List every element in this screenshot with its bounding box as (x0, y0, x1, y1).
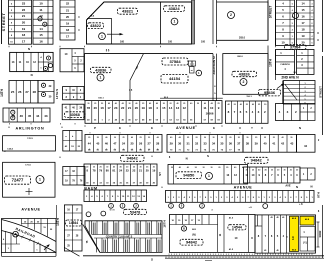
svg-text:30: 30 (290, 137, 292, 139)
svg-text:40: 40 (179, 166, 181, 169)
svg-text:100: 100 (168, 41, 173, 44)
svg-text:5: 5 (312, 43, 313, 45)
svg-text:160.1: 160.1 (98, 97, 104, 99)
block cells with lot 10 (60, 49, 84, 72)
svg-text:STREET: STREET (318, 86, 322, 98)
svg-text:2ND AVE N: 2ND AVE N (281, 75, 299, 79)
svg-text:8: 8 (74, 123, 75, 125)
svg-text:8: 8 (9, 123, 10, 125)
arrow to east (107, 33, 121, 35)
svg-text:30: 30 (212, 137, 214, 139)
svg-text:CHURCH: CHURCH (280, 64, 290, 66)
svg-text:1: 1 (39, 178, 41, 182)
svg-text:8: 8 (60, 123, 61, 125)
svg-text:15: 15 (162, 106, 166, 110)
parcel 72477 block (3, 162, 55, 197)
svg-text:19: 19 (152, 169, 155, 173)
svg-text:72477: 72477 (12, 178, 24, 183)
svg-text:19: 19 (66, 21, 70, 25)
svg-text:ST: ST (158, 172, 162, 176)
svg-text:STREET: STREET (1, 13, 6, 32)
svg-text:2: 2 (243, 80, 245, 84)
svg-text:20: 20 (126, 167, 128, 169)
svg-text:25: 25 (246, 104, 248, 106)
railroad block top cells (21, 219, 23, 225)
block: lots 14-20 (top right) (297, 0, 315, 46)
svg-text:≡: ≡ (78, 15, 80, 19)
svg-text:E: E (119, 126, 121, 130)
svg-text:20: 20 (163, 103, 165, 105)
svg-text:25: 25 (187, 137, 189, 139)
svg-text:30: 30 (93, 167, 95, 169)
svg-text:20: 20 (204, 137, 206, 139)
stair-step block (284, 81, 316, 105)
svg-text:25: 25 (183, 103, 185, 105)
street corridor 10TH/STREET right (267, 0, 269, 40)
svg-text:43824: 43824 (168, 6, 180, 11)
svg-text:40: 40 (190, 102, 192, 105)
svg-text:40: 40 (120, 166, 122, 169)
svg-text:10TH: 10TH (269, 58, 273, 66)
svg-text:25: 25 (273, 137, 275, 139)
svg-text:42: 42 (281, 142, 285, 146)
parcel label 94842 (street row) (121, 155, 145, 161)
svg-text:9 1 9: 9 1 9 (110, 210, 116, 212)
parcel label 43821 (118, 8, 138, 14)
svg-text:17: 17 (66, 35, 70, 39)
svg-text:30: 30 (178, 142, 182, 146)
railroad block sub cells (5, 231, 7, 252)
arrow to stairs (277, 85, 283, 89)
long lots row 38-44 (243, 135, 297, 153)
dense condo block (85, 221, 162, 253)
block 2x3 cells (x63-84) (63, 87, 84, 100)
svg-text:25: 25 (218, 103, 220, 105)
svg-text:N: N (299, 126, 301, 130)
svg-text:25: 25 (146, 167, 148, 169)
svg-text:N: N (296, 185, 298, 189)
svg-text:AVE: AVE (285, 184, 290, 188)
svg-text:30: 30 (246, 170, 248, 172)
svg-text:8: 8 (106, 149, 107, 151)
crossing circle (13, 231, 19, 237)
svg-text:20: 20 (196, 137, 198, 139)
street cross ticks (8, 46, 10, 47)
svg-text:80: 80 (106, 169, 109, 173)
svg-text:38: 38 (246, 142, 250, 146)
svg-text:37: 37 (237, 142, 241, 146)
svg-text:13TH S: 13TH S (55, 89, 59, 99)
svg-text:45: 45 (276, 249, 278, 252)
svg-text:47: 47 (113, 142, 117, 146)
svg-text:20: 20 (94, 106, 98, 110)
svg-text:43822: 43822 (90, 23, 102, 28)
svg-text:N: N (310, 185, 312, 189)
railroad block (2, 219, 57, 253)
svg-text:22: 22 (22, 8, 26, 12)
svg-text:8: 8 (157, 149, 158, 151)
svg-text:N: N (31, 73, 33, 77)
svg-text:22: 22 (66, 2, 70, 6)
svg-text:26: 26 (18, 90, 22, 94)
svg-text:AVENUE: AVENUE (234, 186, 253, 190)
svg-text:ARLINGTON: ARLINGTON (15, 127, 44, 131)
svg-text:43836: 43836 (95, 67, 107, 72)
svg-text:20: 20 (86, 167, 88, 169)
block 94842 (bottom) (170, 215, 256, 253)
lots block right-center 8-3 (226, 101, 269, 123)
small lots row (left) (84, 190, 147, 202)
svg-text:94842: 94842 (319, 230, 322, 237)
block lots 25-28 with markers (9, 81, 38, 104)
svg-text:43826: 43826 (239, 71, 251, 76)
block: lots 22-17 (col 3) (60, 0, 75, 40)
parcel label 43826 (232, 71, 257, 76)
svg-text:25: 25 (122, 137, 124, 139)
svg-text:44: 44 (36, 114, 40, 118)
svg-text:10: 10 (210, 106, 214, 110)
parcel label 14544 (66, 220, 82, 226)
svg-text:81: 81 (112, 169, 115, 173)
svg-text:10: 10 (281, 41, 285, 45)
parcel label 43836 (91, 67, 112, 72)
svg-text:17: 17 (107, 106, 111, 110)
svg-text:116.1: 116.1 (246, 96, 252, 98)
svg-text:2: 2 (131, 149, 132, 151)
svg-text:20: 20 (171, 167, 173, 169)
svg-text:30: 30 (139, 167, 141, 169)
svg-text:40: 40 (149, 102, 151, 105)
svg-text:22: 22 (121, 106, 125, 110)
center lots block 78-20 (84, 164, 157, 186)
parcel label 53478 (124, 209, 147, 214)
svg-text:30: 30 (210, 167, 212, 169)
svg-text:45: 45 (271, 216, 273, 219)
svg-text:16: 16 (301, 14, 305, 18)
wide lot 44 (297, 135, 316, 153)
svg-text:25: 25 (140, 137, 142, 139)
svg-text:28: 28 (33, 90, 37, 94)
block right row2 (church) (276, 50, 295, 75)
svg-text:(¼): (¼) (303, 241, 307, 245)
parcel marker circled 2 (240, 79, 247, 86)
parcel label 44154 (161, 75, 188, 84)
block: lots 23-17 (top left) (9, 0, 32, 44)
svg-text:95436: 95436 (264, 90, 276, 95)
block small lots (left, row2) (10, 52, 53, 71)
parcel marker circled 1 (196, 70, 202, 76)
block: lots 4-10 (top right) (276, 0, 295, 46)
svg-text:E: E (151, 126, 153, 130)
svg-text:40: 40 (179, 136, 181, 139)
diagonal corner line (87, 2, 105, 20)
svg-text:30: 30 (148, 137, 150, 139)
svg-text:m: m (191, 70, 193, 72)
svg-text:20: 20 (146, 169, 149, 173)
svg-text:21: 21 (66, 8, 70, 12)
svg-text:40: 40 (122, 102, 124, 105)
svg-text:33: 33 (203, 142, 207, 146)
svg-text:25: 25 (130, 142, 134, 146)
svg-text:14544: 14544 (69, 221, 78, 225)
svg-text:16: 16 (100, 106, 104, 110)
diagonal cut (83, 224, 100, 252)
block 14544 (64, 205, 82, 251)
right cells of block (217, 215, 219, 253)
svg-text:171.6: 171.6 (25, 165, 31, 167)
parcel label 43822 (88, 23, 104, 29)
parcel 43824 boundary (160, 2, 162, 44)
svg-text:20: 20 (301, 41, 305, 45)
svg-text:14: 14 (169, 106, 173, 110)
svg-text:20: 20 (252, 170, 254, 172)
svg-text:16006: 16006 (206, 112, 214, 116)
svg-text:205.0: 205.0 (239, 37, 246, 40)
svg-text:20: 20 (221, 137, 223, 139)
svg-text:32: 32 (195, 142, 199, 146)
svg-text:16: 16 (39, 39, 43, 43)
svg-text:20: 20 (197, 103, 199, 105)
empty block A (3, 136, 56, 151)
svg-text:43068: 43068 (70, 113, 80, 117)
track ticks (14, 233, 16, 236)
svg-text:40: 40 (187, 166, 189, 169)
svg-text:14TH: 14TH (0, 88, 4, 96)
svg-text:53478: 53478 (130, 210, 141, 214)
dimension figure band under bottom blocks (168, 254, 170, 255)
mid band text (92, 234, 162, 236)
svg-text:30: 30 (271, 170, 273, 172)
svg-text:94842: 94842 (186, 240, 198, 245)
svg-text:AVENUE: AVENUE (176, 126, 196, 130)
inner parcel 43822 (87, 19, 112, 45)
svg-text:4: 4 (312, 35, 313, 38)
svg-text:44: 44 (304, 144, 308, 148)
svg-text:46: 46 (20, 114, 24, 118)
svg-text:40: 40 (204, 102, 206, 105)
svg-text:31: 31 (187, 142, 191, 146)
svg-text:25: 25 (264, 137, 266, 139)
svg-text:5: 5 (292, 4, 293, 6)
svg-text:94842: 94842 (251, 158, 263, 163)
top cells (170, 224, 218, 226)
svg-text:40: 40 (263, 142, 267, 146)
svg-text:E: E (213, 126, 215, 130)
svg-text:4: 4 (292, 9, 293, 12)
svg-text:79: 79 (99, 169, 102, 173)
svg-text:19: 19 (301, 34, 305, 38)
svg-text:15: 15 (39, 33, 43, 37)
svg-text:78: 78 (87, 106, 91, 110)
svg-text:20: 20 (22, 21, 26, 25)
svg-text:20: 20 (88, 137, 90, 139)
small out-parcels (189, 61, 193, 66)
lot marker circle (293, 13, 299, 19)
svg-text:18: 18 (148, 106, 152, 110)
svg-text:40: 40 (252, 103, 254, 106)
svg-text:40: 40 (156, 102, 158, 105)
highlighted parcel top right (yellow) (300, 216, 314, 225)
svg-text:37584: 37584 (169, 59, 181, 64)
svg-text:24: 24 (119, 169, 122, 173)
svg-text:43: 43 (290, 142, 294, 146)
right border bottom (322, 205, 324, 258)
svg-text:40: 40 (282, 136, 284, 139)
svg-text:30: 30 (238, 137, 240, 139)
small block (left of BAUM) (63, 167, 85, 186)
svg-text:35: 35 (220, 142, 224, 146)
svg-text:(N): (N) (192, 234, 196, 237)
svg-text:3: 3 (312, 30, 313, 32)
svg-text:22: 22 (132, 169, 135, 173)
svg-text:45: 45 (276, 216, 278, 219)
svg-text:40: 40 (228, 103, 230, 106)
svg-text:20: 20 (226, 167, 228, 169)
shaded alley (gray strip) (192, 0, 195, 44)
parcel label 72477 (5, 176, 31, 184)
highlighted lot (yellow) (290, 216, 299, 251)
svg-text:N: N (207, 155, 209, 158)
svg-text:40: 40 (170, 136, 172, 139)
marker circled B (181, 226, 186, 231)
small block two rows (63, 131, 82, 152)
svg-text:34: 34 (212, 142, 216, 146)
svg-text:25: 25 (11, 90, 15, 94)
svg-text:17: 17 (301, 21, 305, 25)
svg-text:5: 5 (292, 23, 293, 25)
svg-text:170.5: 170.5 (27, 138, 33, 140)
svg-text:25: 25 (255, 137, 257, 139)
svg-text:§ §: § § (106, 48, 110, 52)
sub-block lots 1-2 (300, 168, 315, 180)
small lots row (right) (166, 191, 315, 203)
survey cross (26, 191, 33, 193)
svg-text:40: 40 (135, 102, 137, 105)
svg-text:43: 43 (44, 114, 48, 118)
svg-text:41: 41 (272, 142, 276, 146)
svg-text:30: 30 (87, 103, 89, 105)
svg-text:160: 160 (120, 41, 125, 44)
svg-text:21: 21 (128, 106, 132, 110)
svg-text:21: 21 (22, 14, 26, 18)
Jackson street corridor band2 (212, 54, 214, 101)
sub-block cells (300, 104, 315, 121)
lots block right 4-1 (276, 104, 301, 121)
svg-text:94842: 94842 (127, 156, 139, 161)
parcel 43826 boundary (223, 54, 268, 95)
svg-text:40: 40 (105, 136, 107, 139)
svg-text:25: 25 (94, 103, 96, 105)
survey circles row (109, 203, 114, 208)
svg-text:1: 1 (101, 34, 103, 38)
svg-text:15: 15 (301, 8, 305, 12)
svg-text:46: 46 (105, 142, 109, 146)
svg-text:29: 29 (170, 142, 174, 146)
parcel label 37584 (right) (285, 44, 307, 49)
parcel label 43824 (164, 6, 185, 12)
svg-text:40: 40 (113, 166, 115, 169)
svg-text:40: 40 (131, 136, 133, 139)
svg-text:40: 40 (265, 169, 267, 172)
map border left (1, 0, 3, 44)
svg-text:40: 40 (115, 102, 117, 105)
parcel marker circled 1 (171, 18, 178, 25)
svg-text:25: 25 (258, 104, 260, 106)
svg-text:6: 6 (312, 23, 313, 25)
svg-text:30: 30 (106, 167, 108, 169)
svg-text:28: 28 (156, 142, 160, 146)
svg-text:40: 40 (240, 103, 242, 106)
svg-text:24: 24 (122, 142, 126, 146)
svg-text:4: 4 (312, 9, 313, 12)
parcel label 43068 (65, 112, 86, 118)
svg-text:94850: 94850 (183, 173, 195, 178)
block right row2 east (297, 50, 315, 75)
parcel marker circled 1 (99, 33, 106, 40)
parcel marker circled 1 (97, 74, 104, 81)
svg-text:20: 20 (290, 170, 292, 172)
svg-text:19: 19 (142, 106, 146, 110)
svg-text:12: 12 (183, 106, 187, 110)
svg-text:44: 44 (88, 142, 92, 146)
svg-text:30: 30 (195, 167, 197, 169)
svg-text:40: 40 (108, 102, 110, 105)
svg-text:4: 4 (292, 29, 293, 32)
svg-text:44154: 44154 (169, 76, 181, 81)
svg-text:COUNTRY CLUB AVE S: COUNTRY CLUB AVE S (106, 235, 133, 238)
svg-text:37584: 37584 (290, 45, 301, 49)
svg-text:20: 20 (234, 104, 236, 106)
svg-text:13: 13 (176, 106, 180, 110)
svg-text:30: 30 (203, 167, 205, 169)
svg-text:S: S (151, 258, 153, 262)
svg-text:≡: ≡ (78, 28, 80, 32)
svg-text:20: 20 (229, 137, 231, 139)
parcel label 37584 (center) (162, 58, 188, 65)
svg-text:10: 10 (39, 2, 43, 6)
block lots 47-43 (3, 108, 50, 122)
svg-text:18: 18 (22, 33, 26, 37)
parcel label 14544 right (228, 225, 246, 230)
svg-text:15TH: 15TH (56, 217, 60, 225)
svg-text:20: 20 (153, 167, 155, 169)
svg-text:20: 20 (101, 103, 103, 105)
dimension bracket right (317, 222, 319, 247)
svg-text:40: 40 (176, 102, 178, 105)
svg-text:25: 25 (97, 137, 99, 139)
svg-text:N: N (28, 47, 30, 51)
dense lots hatch top row (91, 221, 93, 235)
svg-text:20: 20 (135, 106, 139, 110)
svg-text:25: 25 (133, 167, 135, 169)
svg-text:16TH: 16TH (162, 220, 166, 227)
block 43068 (62, 104, 84, 120)
svg-text:3: 3 (292, 36, 293, 38)
svg-text:AVENUE: AVENUE (21, 207, 40, 211)
svg-text:9TH: 9TH (316, 192, 320, 198)
svg-text:30: 30 (283, 170, 285, 172)
street corridor 10TH (267, 46, 269, 81)
svg-text:JACKSON ST: JACKSON ST (212, 55, 216, 75)
svg-text:30: 30 (296, 170, 298, 172)
svg-text:30: 30 (246, 137, 248, 139)
svg-text:20: 20 (100, 167, 102, 169)
Jackson street corridor lines (216, 0, 218, 44)
svg-text:14544: 14544 (232, 226, 242, 230)
parcel marker circled 1 (36, 176, 44, 184)
svg-text:40: 40 (157, 136, 159, 139)
svg-text:27: 27 (148, 142, 152, 146)
